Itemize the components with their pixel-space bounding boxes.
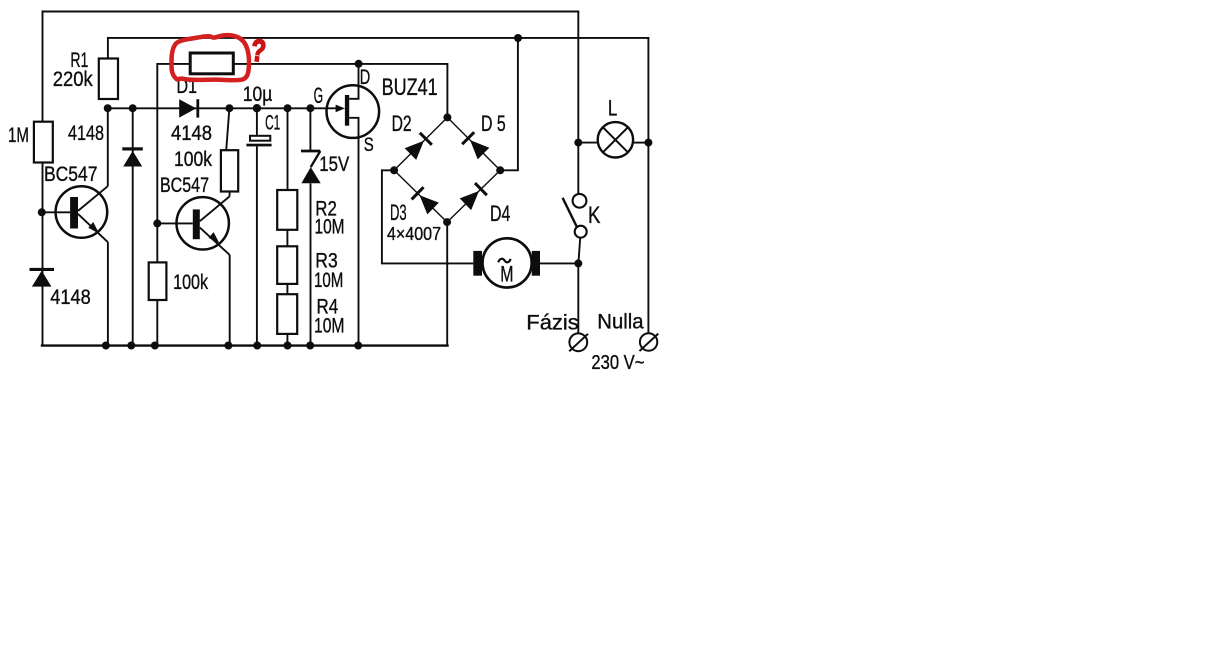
wire Nulla vertical [647, 38, 649, 334]
wire R4 bottom connector [286, 334, 288, 346]
red scribble annotation [172, 35, 249, 80]
wire fuse bus y64 [157, 63, 447, 65]
diode D5 [461, 131, 489, 159]
node upper bus junction [514, 34, 522, 42]
svg-text:10M: 10M [314, 315, 345, 338]
wire left vertical [42, 12, 44, 346]
transistor Q1 BC547 [43, 186, 108, 242]
svg-text:BUZ41: BUZ41 [382, 74, 438, 101]
wire bridge top feed [446, 64, 448, 118]
wire C1 bottom connector [256, 146, 258, 345]
motor M [473, 238, 540, 287]
svg-text:1M: 1M [8, 124, 29, 147]
node R1 bottom junction [104, 104, 112, 112]
transistor Q2 BC547 [157, 196, 229, 255]
svg-text:S: S [364, 134, 374, 156]
node main bus junctions [225, 104, 314, 112]
wire bridge right to bus [500, 38, 518, 170]
svg-text:Nulla: Nulla [597, 311, 644, 334]
terminal Nulla [640, 333, 659, 351]
wire lamp right lead [633, 142, 648, 144]
svg-text:C1: C1 [265, 112, 280, 135]
svg-text:G: G [314, 83, 324, 108]
zener diode 15V [301, 151, 321, 183]
svg-text:230 V~: 230 V~ [591, 352, 644, 374]
node diode column junction [129, 104, 137, 112]
resistor unknown fuse [190, 53, 233, 74]
svg-text:D 5: D 5 [481, 111, 506, 136]
svg-text:D3: D3 [390, 200, 407, 225]
node drain junction [355, 60, 363, 68]
resistor R1 [99, 59, 118, 100]
wire upper bus y38 [108, 37, 649, 39]
svg-text:D4: D4 [490, 201, 510, 226]
wire C1 top connector [256, 108, 258, 136]
svg-text:100k: 100k [174, 148, 212, 171]
wire sense vertical x157 [156, 64, 158, 346]
wire 100k top connector [226, 108, 229, 150]
diode D2 [404, 132, 432, 160]
lamp L [598, 122, 633, 157]
wire Q1 collector vertical [107, 108, 109, 186]
wire motor to switch node [540, 262, 578, 264]
wire Q1 emitter vertical [107, 242, 109, 345]
wire R2-R3 connector [286, 230, 288, 247]
resistor R4 [277, 294, 297, 334]
wire bridge bottom to rail [446, 222, 448, 346]
diode 4148 left [30, 268, 55, 287]
diode D3 [411, 186, 439, 214]
svg-text:4148: 4148 [68, 122, 104, 145]
diode D4 [459, 182, 487, 210]
node lamp right junction [644, 139, 652, 147]
node Q1 base junction [38, 208, 46, 216]
wire zener top connector [309, 108, 311, 151]
node motor-switch junction [574, 259, 582, 267]
wire junction to Fazis terminal [577, 263, 579, 333]
svg-text:Fázis: Fázis [526, 311, 579, 334]
resistor 1M [34, 122, 53, 163]
svg-text:220k: 220k [53, 68, 93, 91]
wire bridge left to motor [382, 170, 473, 263]
svg-text:10M: 10M [314, 269, 343, 292]
wire R2 top connector [287, 108, 289, 190]
wire switch to junction [578, 238, 580, 264]
svg-text:M: M [500, 261, 513, 286]
wire main bus y108 [108, 107, 337, 109]
wire Q2 emitter vertical [229, 255, 231, 346]
wire zener bottom connector [310, 183, 312, 345]
svg-text:K: K [588, 202, 600, 229]
svg-text:10µ: 10µ [243, 83, 272, 106]
wire R3-R4 connector [286, 284, 288, 294]
node Q2 base junction [153, 219, 161, 227]
svg-text:10M: 10M [315, 215, 345, 238]
wire R1 top stub [107, 38, 109, 59]
wire top rail drop to lamp [577, 12, 579, 143]
switch K [563, 194, 587, 238]
capacitor C1 [246, 136, 271, 147]
resistor 100k first [221, 150, 238, 191]
wire top rail [43, 11, 579, 13]
svg-text:4148: 4148 [171, 122, 212, 145]
op-amp n/a mosfet U1 BUZ41 [327, 64, 380, 346]
svg-text:D: D [360, 65, 371, 89]
svg-text:BC547: BC547 [160, 174, 209, 197]
svg-text:L: L [608, 96, 617, 121]
wire diode column x132.7 [132, 108, 134, 345]
svg-text:4148: 4148 [50, 286, 91, 309]
wire bottom rail [42, 344, 448, 346]
node bridge corners [390, 113, 504, 226]
svg-text:15V: 15V [319, 153, 349, 176]
terminal Fazis [569, 333, 588, 351]
diode D1 [179, 99, 199, 117]
svg-text:D2: D2 [392, 111, 412, 136]
wire Q2 collector vertical [229, 192, 231, 197]
node lamp left junction [574, 139, 582, 147]
wire lamp left lead [578, 142, 598, 144]
resistor R3 [277, 246, 297, 284]
wire bridge edges [394, 117, 500, 222]
resistor R2 [277, 190, 297, 230]
svg-text:100k: 100k [173, 271, 208, 294]
node bottom rail junctions [102, 342, 362, 350]
svg-text:BC547: BC547 [44, 163, 98, 186]
wire switch feed [577, 143, 579, 194]
diode 4148 second [122, 147, 143, 166]
resistor 100k second [149, 262, 167, 300]
svg-text:4×4007: 4×4007 [387, 224, 441, 244]
